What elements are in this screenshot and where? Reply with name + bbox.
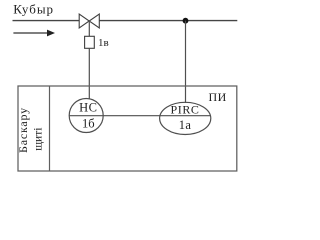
- flow direction arrow: [13, 30, 55, 37]
- svg-text:НС: НС: [79, 100, 97, 114]
- svg-text:щиті: щиті: [32, 128, 44, 151]
- instrument ellipse PIRC 1а: [160, 102, 211, 134]
- svg-text:Баскару: Баскару: [16, 107, 30, 153]
- wire junction down to instrument PIRC: [185, 21, 187, 103]
- actuator square 1в: [85, 36, 95, 48]
- wire valve stem down to actuator square: [88, 21, 90, 36]
- wire pipe line left segment: [13, 20, 80, 22]
- svg-text:1б: 1б: [82, 116, 95, 130]
- instrument circle HC 1б: [69, 99, 103, 133]
- wire pipe line right segment: [99, 20, 237, 22]
- svg-text:PIRC: PIRC: [170, 103, 199, 117]
- control panel box: [18, 86, 237, 171]
- valve (bowtie): [79, 14, 99, 28]
- divider line of label column: [49, 86, 51, 171]
- svg-text:1в: 1в: [98, 37, 109, 49]
- wire square down to instrument HC: [88, 48, 90, 99]
- svg-text:Кубыр: Кубыр: [13, 2, 54, 17]
- svg-text:1а: 1а: [179, 118, 192, 132]
- wire instrument middle line through HC and PIRC: [69, 115, 211, 117]
- svg-text:ПИ: ПИ: [209, 90, 227, 104]
- junction dot on pipe line: [183, 18, 189, 24]
